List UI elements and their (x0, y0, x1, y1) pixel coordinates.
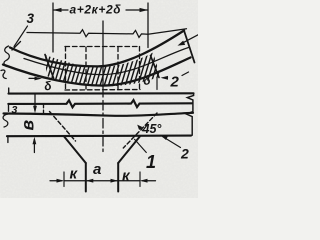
plate line 2 with break (8, 100, 192, 107)
dim line k right (118, 180, 140, 182)
curved strip right end cut (184, 31, 195, 63)
extension line right (147, 3, 149, 48)
center line (102, 21, 104, 97)
delta extension right (156, 78, 158, 90)
left break squiggle (3, 114, 8, 127)
form dashed bottom (65, 89, 140, 92)
hatch right boundary (151, 56, 160, 78)
plate line 1 left stub (8, 88, 10, 94)
web edge right (117, 163, 119, 192)
hatch left boundary (45, 55, 54, 79)
bevel hidden line right (123, 113, 157, 148)
curved strip mid line (24, 48, 189, 75)
svg-text:2: 2 (180, 146, 189, 162)
strip end cut left (12, 42, 21, 51)
curved strip bottom edge (3, 58, 191, 86)
dim line k left (64, 180, 86, 182)
thickness dim arrow down (34, 95, 36, 111)
strip left break (4, 46, 9, 67)
leader for 1 (135, 139, 147, 152)
form dashed top (65, 46, 140, 48)
svg-text:а+2к+2δ: а+2к+2δ (70, 3, 122, 17)
extension line k right (139, 172, 141, 187)
dim line outer right with arrow (142, 180, 156, 182)
groove right bevel (118, 136, 140, 163)
dim line a with arrows (86, 180, 118, 182)
plate line 4 left stub (7, 136, 9, 142)
thickness dim arrow up (33, 140, 35, 153)
hidden edge short dashes (43, 104, 45, 113)
form dashed left (65, 47, 67, 91)
reference line with breaks (27, 29, 187, 38)
groove left bevel (64, 136, 86, 163)
plate line 4 (7, 135, 191, 138)
band2 left edge stub (8, 104, 10, 111)
leader for label 3 (14, 26, 28, 47)
right break edge (186, 93, 193, 135)
bevel hidden line left (50, 112, 76, 142)
dimension line top right segment (126, 9, 148, 11)
plate line 3 sagging (4, 113, 194, 116)
svg-text:3: 3 (27, 11, 35, 26)
angle leader arrow (139, 127, 143, 131)
svg-text:1: 1 (146, 152, 156, 172)
leader arrow from right edge (181, 35, 198, 44)
stray stroke near 2 (182, 72, 189, 76)
extension line left (52, 3, 54, 52)
form dashed right (139, 47, 141, 90)
form dashed inner left (85, 47, 87, 90)
arrowhead top left (53, 8, 62, 12)
dimension line top left segment (53, 9, 68, 11)
svg-text:в: в (18, 120, 38, 131)
arrowhead top right (140, 8, 149, 12)
form dashed inner right (117, 47, 119, 89)
svg-text:2: 2 (170, 74, 180, 91)
svg-text:а: а (93, 161, 101, 178)
dim line outer left with arrow (50, 180, 62, 182)
paper background (0, 0, 198, 198)
extension line k left (63, 172, 65, 187)
svg-text:3: 3 (12, 104, 18, 116)
curved strip top edge (10, 31, 184, 67)
svg-text:45°: 45° (142, 122, 163, 136)
arrow to weld left (29, 77, 39, 79)
leader for 2 bottom (163, 137, 181, 148)
plate line 1 (9, 92, 194, 94)
lower break stub (1, 70, 6, 79)
leader for 2 top (163, 77, 168, 79)
web edge left (85, 163, 87, 192)
